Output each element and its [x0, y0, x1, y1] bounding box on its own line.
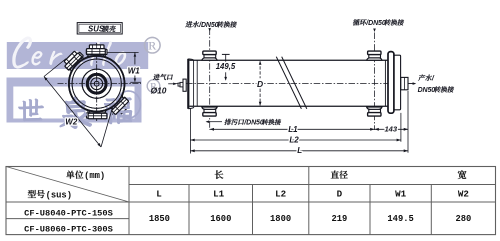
svg-text:L2: L2: [289, 135, 299, 144]
svg-text:/DN50: /DN50: [365, 20, 386, 27]
svg-text:1850: 1850: [149, 214, 170, 224]
air inlet port (left end): [178, 79, 186, 91]
vessel shell top edge: [190, 59, 390, 61]
svg-text:219: 219: [331, 214, 347, 224]
registered trademark symbol 2: [147, 80, 160, 93]
svg-text:L2: L2: [275, 188, 286, 199]
svg-text:/DN50: /DN50: [243, 119, 264, 126]
right end cap flange ring: [388, 52, 394, 114]
svg-text:W1: W1: [395, 188, 407, 199]
break lines (shell interrupted): [276, 57, 301, 109]
dimension 143: [375, 124, 409, 133]
dimension W2: [44, 59, 113, 147]
end view center port rings: [82, 69, 111, 98]
svg-text:W2: W2: [65, 118, 78, 127]
registered trademark symbol 1: [145, 37, 161, 53]
extension line right cap: [400, 113, 402, 142]
bottom right nozzle: [367, 107, 382, 116]
end view clamp tab top (template): [86, 45, 108, 58]
table header: length: [215, 170, 224, 179]
svg-text:Ø10: Ø10: [151, 85, 167, 95]
svg-text:/DN50: /DN50: [198, 22, 219, 29]
end view clamp tab top (template): [86, 49, 106, 58]
end view center port rings: [82, 69, 111, 98]
dimension L1: [210, 125, 375, 134]
label: drain port / DN50 (bottom): [206, 119, 282, 127]
end view clamp tab upper-left: [62, 49, 87, 74]
watermark large characters: [19, 91, 141, 128]
extension line right port: [407, 91, 409, 153]
watermark large characters: [19, 91, 141, 128]
svg-text:D: D: [257, 79, 263, 89]
svg-text:280: 280: [455, 214, 471, 224]
end view shell lip circle: [72, 59, 121, 108]
extension line left end: [189, 109, 191, 154]
table header: model (sus): [28, 190, 72, 200]
vessel main axis centerline: [175, 83, 415, 85]
end view shell lip circle: [72, 59, 121, 108]
svg-text:R: R: [148, 39, 156, 53]
svg-text:149,5: 149,5: [216, 62, 236, 71]
registered trademark symbol 2: [147, 80, 160, 93]
label: product water / DN50 (right): [409, 74, 455, 93]
end view centerlines: [96, 43, 98, 121]
table subheaders L L1 L2 D W1 W2: [156, 188, 469, 199]
svg-text:CF-U8040-PTC-150S: CF-U8040-PTC-150S: [24, 208, 113, 218]
inlet port (top left nozzle): [202, 51, 217, 60]
table header diagonal: [6, 167, 129, 203]
svg-text:L1: L1: [213, 188, 225, 199]
left end cap: [188, 59, 197, 109]
svg-text:L: L: [156, 188, 162, 199]
port centerline right: [374, 33, 376, 131]
table header: unit (mm): [66, 171, 105, 181]
watermark band 2 (logo box): [7, 78, 142, 123]
dimension W1: [107, 52, 141, 82]
end view shell outer circle: [69, 56, 125, 112]
table header: diameter: [331, 171, 339, 179]
right end cap seam: [384, 60, 386, 106]
end view clamp tab bottom: [87, 110, 107, 119]
port centerline left: [209, 29, 211, 131]
svg-text:L1: L1: [288, 125, 298, 134]
spec table grid: [6, 167, 496, 235]
registered trademark symbol 1: [145, 37, 161, 53]
label: inlet / DN50 (top left): [185, 21, 237, 31]
svg-text:(sus): (sus): [46, 190, 72, 200]
svg-text:(mm): (mm): [84, 171, 105, 181]
SUS housing label box: [77, 23, 122, 34]
end view clamp tab lower-right: [107, 94, 132, 119]
drain port (bottom left nozzle): [202, 107, 217, 116]
svg-text:143: 143: [384, 124, 397, 133]
svg-text:CF-U8060-PTC-300S: CF-U8060-PTC-300S: [24, 225, 113, 235]
circulation port (top right nozzle): [367, 51, 382, 60]
watermark band 1 (Cerallo script): [7, 36, 148, 69]
product water port (right end): [401, 77, 408, 89]
svg-text:L: L: [297, 146, 302, 155]
end view clamp tab lower-right: [108, 94, 129, 115]
end view clamp tab upper-left: [64, 52, 85, 73]
svg-text:1800: 1800: [270, 214, 291, 224]
svg-text:W1: W1: [128, 66, 141, 75]
label: circulation / DN50 (top right): [352, 19, 404, 32]
dimension 149,5: [216, 54, 236, 80]
end view centerlines: [96, 43, 98, 121]
dimension D (vertical, dashed): [257, 61, 263, 106]
table model numbers: [24, 208, 113, 234]
dimension L2: [190, 135, 401, 144]
svg-text:DN50: DN50: [418, 87, 436, 94]
dimension L: [190, 146, 408, 155]
svg-text:W2: W2: [458, 188, 469, 199]
end view clamp tab bottom: [86, 109, 108, 118]
end view shell outer circle: [69, 56, 125, 112]
svg-text:1600: 1600: [210, 214, 231, 224]
table data values: [149, 214, 471, 224]
svg-text:SUS: SUS: [88, 25, 105, 34]
label: air inlet port, dia 10 (left): [151, 74, 177, 95]
vessel shell bottom edge: [190, 105, 390, 107]
svg-text:149.5: 149.5: [387, 214, 413, 224]
svg-text:D: D: [337, 188, 343, 199]
right end cap plate: [394, 55, 400, 110]
table header: width: [458, 170, 467, 179]
